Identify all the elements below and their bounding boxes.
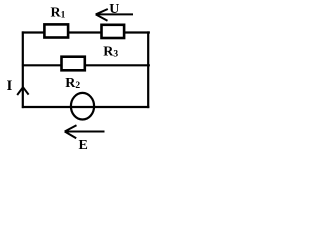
wire middle (R2 branch) (22, 64, 150, 66)
wire right vertical (147, 31, 149, 108)
wire left vertical (22, 31, 24, 108)
wire top (22, 31, 150, 33)
svg-text:E: E (79, 138, 88, 150)
wire bottom (22, 106, 149, 108)
arrow I (points up, on left wire) (17, 87, 28, 95)
resistor R2 (62, 57, 85, 71)
resistor R3 (102, 25, 125, 38)
resistor R1 (44, 24, 68, 37)
svg-text:I: I (7, 78, 13, 94)
source E (circle) (71, 93, 94, 120)
arrow E (points left, below circle) (65, 125, 105, 138)
arrow U (points left, above R3) (96, 9, 133, 21)
svg-text:U: U (109, 2, 119, 17)
